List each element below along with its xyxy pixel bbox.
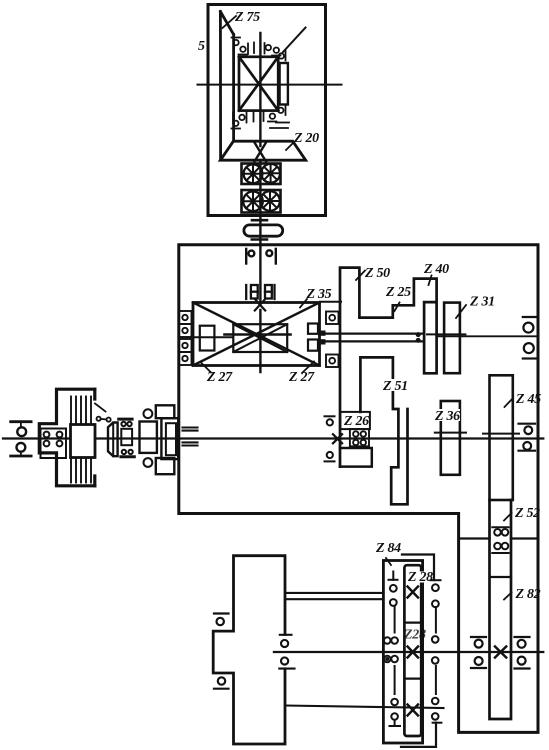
housing right edge segments <box>93 389 96 486</box>
feed gearbox inner column <box>404 565 421 736</box>
tick below pulley <box>252 238 267 241</box>
svg-text:5: 5 <box>198 39 205 54</box>
svg-text:Z 75: Z 75 <box>234 10 260 25</box>
clutch cross on Z82 column <box>495 647 506 658</box>
leader Z27 left <box>201 363 211 373</box>
bearing right of Z82 column <box>515 637 530 669</box>
gear cluster Z51 lower staircase <box>360 357 407 504</box>
right wall bearing shaft II upper <box>523 317 538 359</box>
leader Z25 <box>395 303 400 312</box>
shifter lever on housing <box>95 404 111 422</box>
spoked wheel upper-left <box>244 164 263 183</box>
bearing cluster bottom-left of motor box <box>232 111 254 129</box>
feed gearbox outer case <box>383 561 422 744</box>
bearing block with four rollers <box>41 429 67 459</box>
clutch disc hatching upper <box>71 397 91 429</box>
label Z52 <box>514 506 540 521</box>
bearing left of Z82 column <box>471 637 486 668</box>
shaft III stub through left wall <box>179 336 232 338</box>
bearing cluster bottom-right of motor box <box>264 105 290 129</box>
bearing block in Z52 <box>492 527 508 553</box>
spline coupling shaft II <box>318 331 326 345</box>
label Z26 <box>343 414 369 429</box>
label Z25 <box>385 285 411 300</box>
inner rect diagonals <box>233 324 287 352</box>
shaft I vertical axis <box>259 33 261 372</box>
clutch cross upper in inner column <box>408 587 419 598</box>
clutch disc hatching lower <box>71 451 91 483</box>
svg-text:Z 31: Z 31 <box>469 295 495 310</box>
leader Z50 <box>356 271 365 281</box>
inner sleeve rect of headstock <box>233 324 287 352</box>
svg-text:Z 45: Z 45 <box>515 392 541 407</box>
figure digit 5 <box>198 39 205 54</box>
svg-text:Z 36: Z 36 <box>434 409 460 424</box>
label Z50 <box>364 266 390 281</box>
upper feed rail pair <box>285 592 383 594</box>
spoked wheel lower-right <box>260 191 280 211</box>
main horizontal axis <box>3 437 543 439</box>
leader Z84 <box>386 558 391 565</box>
clutch cross on shaft I in Z20 <box>255 143 267 162</box>
gear Z45 <box>490 375 513 500</box>
slider sleeve <box>119 419 135 457</box>
shaft segment inside headstock <box>225 333 291 336</box>
svg-text:Z 25: Z 25 <box>385 285 411 300</box>
leader Z35 <box>300 299 307 308</box>
spline dots on shaft II <box>416 332 421 343</box>
bearing block right of headstock lower <box>326 355 339 368</box>
svg-text:Z 82: Z 82 <box>515 587 541 602</box>
leader Z27 right <box>302 362 314 374</box>
bearing block below Z26 <box>350 429 369 446</box>
gear cluster Z50-Z25-Z40 upper staircase <box>340 268 437 467</box>
label Z27 left <box>206 370 233 385</box>
shaft tick at Z45 <box>483 433 519 435</box>
spoked wheel upper-right <box>261 164 280 183</box>
clutch cross left of Z26 <box>333 434 342 443</box>
gear Z26 with label box <box>340 412 370 429</box>
cone clutch inner line <box>112 423 114 457</box>
svg-text:Z 50: Z 50 <box>364 266 390 281</box>
bearing circles flanking Z26 clutch <box>325 416 335 461</box>
label Z40 <box>423 262 449 277</box>
left bearing column of feed box <box>384 572 400 727</box>
bearing above apron block arm <box>214 614 229 626</box>
headstock crossed box Z35 <box>193 303 320 366</box>
label Z51 <box>382 379 409 394</box>
frame: main gearbox outline <box>179 245 538 733</box>
label Z31 <box>469 295 495 310</box>
bearing below apron block arm <box>214 677 229 688</box>
bearing cluster top-left of motor box <box>232 38 255 55</box>
mount path bottom right of feed box <box>401 723 436 747</box>
label Z82 <box>515 587 541 602</box>
worm wheel box upper <box>242 164 281 185</box>
right tooth rect lower inside headstock <box>308 340 318 351</box>
divider 2 inner column <box>404 677 421 679</box>
left tooth rect inside headstock <box>200 326 215 351</box>
worm wheel box lower <box>242 190 281 213</box>
shelf line in sub-box <box>459 537 490 539</box>
label Z84 <box>375 541 401 556</box>
sliding sleeve inner rect <box>166 423 176 455</box>
gear Z75 cone <box>220 12 233 161</box>
divider 1 inner column <box>404 621 421 623</box>
gear Z26 lower rect <box>340 448 372 467</box>
leader Z31 <box>456 305 466 318</box>
tick above pulley <box>252 219 267 222</box>
motor crossed box <box>239 57 278 111</box>
bearing cluster top-right of motor box <box>265 43 286 61</box>
svg-text:Z 40: Z 40 <box>423 262 449 277</box>
label Z20 <box>293 131 319 146</box>
apron cross block <box>213 556 285 744</box>
inner sleeve rect right of motor box <box>280 63 288 105</box>
gear column Z52/Z82 <box>490 500 512 719</box>
gear Z31 <box>444 303 460 374</box>
svg-text:Z 26: Z 26 <box>343 414 369 429</box>
clutch hub rect <box>71 425 96 458</box>
right tooth rect upper inside headstock <box>308 324 318 334</box>
sliding sleeve tall rect <box>161 418 178 459</box>
svg-text:Z28: Z28 <box>403 628 426 643</box>
cone clutch <box>108 423 118 457</box>
svg-text:Z 84: Z 84 <box>375 541 401 556</box>
leader Z52 <box>504 513 512 521</box>
clutch cross shaft I <box>255 299 265 311</box>
shaft II centerline to right wall <box>427 333 465 335</box>
label Z35 <box>306 287 332 302</box>
svg-text:Z 20: Z 20 <box>293 131 319 146</box>
leader Z75 <box>223 16 237 28</box>
divider top of Z82 <box>490 576 512 578</box>
centerline: top box horizontal axis <box>198 84 342 86</box>
frame: top gearbox housing <box>208 5 326 216</box>
leader Z45 <box>505 398 514 407</box>
svg-text:Z 28: Z 28 <box>407 570 433 585</box>
lower feed rail <box>285 706 443 709</box>
leader Z82 <box>504 593 512 600</box>
bearing circles on apron block right edge <box>279 635 294 669</box>
bearing block right of headstock upper <box>326 312 339 325</box>
svg-text:Z 51: Z 51 <box>382 379 408 394</box>
right bearing column of feed box <box>431 580 442 723</box>
motor housing left assembly <box>39 389 95 486</box>
right wall bearing main axis <box>519 424 536 451</box>
shaft II double line <box>325 333 423 335</box>
stub line right of headstock top corner <box>320 301 341 303</box>
belt pulley oval <box>244 225 283 236</box>
leader diagonal top-right <box>283 28 306 53</box>
clutch cross middle in inner column <box>408 647 419 658</box>
leader Z40 <box>429 276 432 286</box>
bottom axis <box>274 651 543 653</box>
spline bars right of frame edge <box>183 428 198 446</box>
bearing blocks on main box left wall <box>179 311 192 365</box>
spoked wheel lower-left <box>243 192 263 212</box>
yoke bracket with circles <box>140 405 175 474</box>
clutch cross lower in inner column <box>408 705 419 716</box>
leader Z20 <box>286 142 294 150</box>
label Z45 <box>515 392 541 407</box>
label Z75 <box>234 10 260 25</box>
spline group shaft I <box>246 285 274 299</box>
left end bearing of main axis <box>11 422 31 456</box>
label Z36 <box>434 409 460 424</box>
gear Z20 bevel trapezoid <box>220 141 305 160</box>
bearing group shaft I at box top <box>246 249 276 264</box>
gear Z36 <box>441 401 460 475</box>
label Z28 <box>407 570 433 585</box>
svg-text:Z 35: Z 35 <box>306 287 332 302</box>
svg-text:Z 52: Z 52 <box>514 506 540 521</box>
label Z27 right <box>288 370 315 385</box>
shaft tick at Z36 <box>435 432 466 434</box>
top extension of feed case <box>402 555 434 581</box>
label Z28 smudged <box>403 628 426 643</box>
